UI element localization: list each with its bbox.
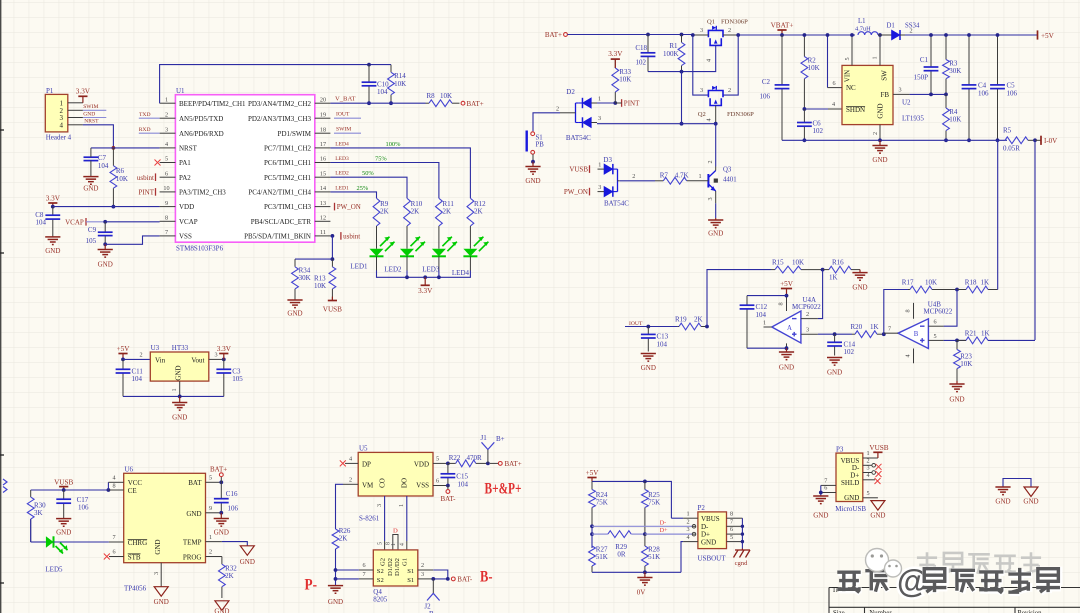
svg-text:DP: DP [362, 460, 371, 468]
svg-text:P3: P3 [836, 445, 844, 453]
svg-text:5: 5 [844, 57, 851, 60]
resistor R1 [681, 35, 683, 43]
resistor R14 [390, 65, 392, 73]
capacitor C1 [930, 35, 932, 67]
svg-text:LED4: LED4 [452, 269, 470, 277]
svg-text:20: 20 [320, 96, 326, 103]
led LED3 [438, 226, 440, 249]
capacitor C4 [968, 35, 970, 85]
svg-text:R19: R19 [675, 316, 687, 324]
svg-text:8: 8 [112, 483, 115, 490]
svg-text:D1/D2: D1/D2 [394, 558, 401, 576]
svg-text:104: 104 [36, 219, 47, 227]
wire bottom gnd bus [592, 571, 681, 573]
resistor R2 [803, 35, 805, 57]
node C4 rail junction [967, 33, 971, 37]
svg-text:PD3/AN4/TIM2_CH2: PD3/AN4/TIM2_CH2 [248, 100, 312, 108]
svg-text:2: 2 [556, 105, 559, 112]
capacitor C15 [447, 463, 449, 473]
svg-text:SHDN: SHDN [846, 106, 865, 114]
svg-text:LED2: LED2 [384, 265, 402, 273]
node BAT- junction2 [446, 577, 450, 581]
node C18 rail junction [646, 33, 650, 37]
wire C12 top [747, 295, 787, 297]
svg-text:SW: SW [881, 70, 889, 81]
svg-text:G1: G1 [401, 558, 408, 566]
svg-text:GND: GND [214, 608, 229, 613]
node C15 junction [446, 462, 450, 466]
svg-text:3.3V: 3.3V [217, 345, 232, 353]
wire feedback up [707, 270, 771, 327]
node C9 bottom junction [103, 242, 107, 246]
led LED2 [406, 226, 408, 249]
node C5 rail junction [996, 33, 1000, 37]
svg-text:VCAP: VCAP [65, 218, 84, 226]
svg-text:+5V: +5V [1041, 32, 1055, 40]
svg-text:GND: GND [56, 529, 71, 537]
svg-text:R18: R18 [965, 279, 977, 287]
svg-text:1K: 1K [981, 330, 990, 338]
svg-text:LED1: LED1 [350, 262, 368, 270]
net label PINT pin10 [155, 188, 157, 196]
svg-text:5: 5 [933, 333, 936, 340]
resistor R27 [589, 546, 596, 566]
svg-text:2: 2 [707, 160, 714, 163]
svg-text:R7: R7 [660, 172, 669, 180]
svg-text:6: 6 [824, 485, 827, 492]
svg-text:R22: R22 [449, 454, 461, 462]
wire TEMP pin1 [206, 541, 222, 543]
wire Q3 emitter [715, 203, 717, 218]
svg-text:P-: P- [305, 577, 318, 594]
wire to R34 [295, 258, 332, 260]
svg-text:17: 17 [320, 141, 326, 148]
svg-text:GND: GND [240, 558, 255, 566]
node R25 top junction [643, 480, 647, 484]
wire S1 link [533, 113, 560, 131]
node D- junction [590, 524, 594, 528]
node Q4 s2b junction [334, 577, 338, 581]
wire VUSB bus [31, 489, 109, 491]
resistor R6 [112, 148, 114, 166]
power I-0V [1035, 139, 1041, 141]
connector P2 USBOUT body [698, 512, 727, 549]
svg-text:5: 5 [730, 534, 733, 541]
svg-text:104: 104 [377, 88, 388, 96]
net label PINT [621, 99, 623, 107]
svg-text:PC4/AN2/TIM1_CH4: PC4/AN2/TIM1_CH4 [248, 189, 311, 197]
svg-text:usbint: usbint [343, 233, 360, 241]
ground GND C17 [56, 518, 71, 520]
svg-text:USBOUT: USBOUT [698, 554, 727, 562]
svg-text:R20: R20 [851, 323, 863, 331]
resistor R17 [908, 289, 910, 291]
svg-text:4: 4 [905, 354, 912, 357]
svg-text:BAT+: BAT+ [545, 31, 562, 39]
node R19 junction [705, 325, 709, 329]
svg-text:PC5/TIM2_CH1: PC5/TIM2_CH1 [264, 174, 312, 182]
transistor Q4 8205 body [373, 550, 418, 586]
svg-text:B+: B+ [496, 435, 505, 443]
svg-text:104: 104 [458, 480, 469, 488]
svg-text:GND: GND [877, 103, 885, 118]
capacitor C3 [223, 359, 225, 369]
node VSS junction [446, 484, 450, 488]
svg-text:106: 106 [78, 504, 89, 512]
wire Q1 gate [648, 45, 716, 71]
svg-text:2K: 2K [474, 208, 483, 216]
svg-text:U5: U5 [359, 445, 368, 453]
svg-text:3.3V: 3.3V [46, 195, 61, 203]
terminal BAT+ top [461, 101, 465, 105]
svg-text:4: 4 [60, 121, 64, 129]
svg-text:+5V: +5V [586, 469, 600, 477]
resistor R9 [373, 198, 380, 226]
U1 right pin 14 stub [315, 191, 331, 193]
wire Q4 S2 pin7 [359, 578, 373, 580]
resistor R30 [30, 490, 32, 497]
svg-text:B-: B- [480, 569, 493, 586]
connector J1 [487, 450, 489, 464]
ground GND R16 [859, 270, 861, 273]
wire FB [893, 93, 910, 95]
node BAT- junction1 [431, 577, 435, 581]
node C6 bottom junction [803, 138, 807, 142]
U2 pin2 GND stub [879, 125, 881, 141]
svg-text:14: 14 [320, 185, 326, 192]
wire D2 to gates [597, 123, 716, 125]
node U4A gnd junction [785, 346, 789, 350]
svg-text:6: 6 [730, 526, 733, 533]
node R1 gate junction [680, 70, 684, 74]
svg-text:5: 5 [209, 475, 212, 482]
svg-text:GND: GND [154, 598, 169, 606]
svg-text:C9: C9 [88, 226, 97, 234]
op-amp U4B MCP6022 [898, 319, 928, 349]
svg-text:4: 4 [399, 543, 405, 546]
svg-text:PA2: PA2 [179, 174, 191, 182]
U1 right pin 18 stub [315, 132, 331, 134]
svg-text:R5: R5 [1003, 127, 1012, 135]
node C4 bottom junction [967, 138, 971, 142]
svg-text:51K: 51K [596, 553, 608, 561]
svg-text:PINT: PINT [138, 189, 154, 197]
svg-text:DO: DO [401, 478, 409, 488]
resistor R32 [221, 557, 223, 565]
svg-text:50%: 50% [362, 170, 374, 177]
svg-text:GND: GND [813, 511, 828, 519]
P3 pin2 nc [863, 464, 872, 466]
capacitor C18 [647, 35, 649, 53]
svg-text:4: 4 [866, 472, 869, 479]
svg-text:SHLD: SHLD [841, 479, 859, 487]
svg-text:2: 2 [872, 132, 879, 135]
node gate-D2 junction [680, 122, 684, 126]
svg-text:GND: GND [525, 177, 540, 185]
node R4 rail junction [944, 138, 948, 142]
power VUSB P3 [863, 457, 878, 459]
svg-text:R17: R17 [902, 279, 914, 287]
wire +5V top [592, 481, 671, 518]
ground cgnd [735, 549, 750, 551]
svg-text:GND: GND [827, 369, 842, 377]
wire LED2 pin15 [330, 177, 407, 198]
transistor Q1 FDN306P [708, 30, 723, 37]
svg-text:cgnd: cgnd [735, 560, 749, 567]
wire S1 to GND [532, 154, 534, 162]
wire R5 to R21 [1034, 140, 1036, 340]
node C5 bottom junction [996, 138, 1000, 142]
node R6-VDD junction [112, 205, 116, 209]
svg-text:8: 8 [778, 302, 785, 305]
svg-text:PA3/TIM2_CH3: PA3/TIM2_CH3 [179, 189, 226, 197]
P3 pin6 stub [821, 492, 836, 494]
resistor R23 [956, 340, 958, 349]
P2 pin1 stub [683, 517, 698, 519]
capacitor C10 [368, 65, 370, 83]
svg-text:10K: 10K [960, 360, 972, 368]
resistor R4 [945, 94, 947, 108]
U1 right pin 19 stub [315, 117, 331, 119]
svg-text:3: 3 [898, 87, 901, 94]
node VBAT+ junction [780, 33, 784, 37]
wire GND bottom rail [782, 139, 1007, 141]
resistor R22 [448, 462, 456, 464]
svg-text:R21: R21 [965, 330, 977, 338]
svg-text:Q2: Q2 [698, 111, 706, 118]
connector P1 header [45, 94, 68, 131]
node U3 gnd junction [178, 395, 182, 399]
node Q1 pin3 junction [691, 33, 695, 37]
terminal BAT- Q4 [451, 577, 455, 581]
wire R24 chain [591, 526, 593, 548]
wire GND pin9 [206, 512, 222, 514]
resistor R25 [644, 481, 646, 489]
watermark text [917, 552, 937, 574]
ground GND U4A [786, 348, 788, 352]
node R3 rail junction [944, 33, 948, 37]
svg-text:GND: GND [98, 261, 113, 269]
svg-text:1: 1 [209, 534, 212, 541]
svg-text:106: 106 [1007, 89, 1018, 97]
svg-text:10K: 10K [314, 282, 326, 290]
U1 right pin 16 stub [315, 162, 331, 164]
svg-text:105: 105 [86, 237, 97, 245]
resistor R26 [332, 529, 339, 549]
node U3 out junction [222, 358, 226, 362]
svg-text:HT33: HT33 [172, 344, 189, 352]
svg-text:104: 104 [98, 162, 109, 170]
svg-text:102: 102 [636, 59, 647, 67]
diode D1 SS34 [878, 34, 892, 36]
terminal BAT+ U6 [220, 477, 222, 483]
connector J2 [432, 579, 434, 593]
net label VCAP [85, 218, 87, 226]
op chip U5 S-8261 body [358, 452, 433, 496]
svg-text:30K: 30K [299, 274, 311, 282]
wire P2 shield bus [741, 518, 743, 548]
svg-text:VBAT+: VBAT+ [771, 21, 794, 29]
svg-text:C2: C2 [762, 78, 771, 86]
svg-text:3: 3 [700, 27, 703, 34]
svg-text:GND: GND [83, 185, 98, 193]
svg-text:75K: 75K [596, 499, 608, 507]
wire to R17 [884, 290, 908, 335]
U1 right pin 13 stub [315, 206, 331, 208]
ground GND C13 [641, 353, 656, 355]
node R2 SHDN junction [803, 107, 807, 111]
wire Q3 collector [715, 124, 717, 167]
svg-text:LED4: LED4 [335, 141, 349, 147]
svg-text:8205: 8205 [373, 596, 388, 604]
svg-text:G2: G2 [380, 558, 387, 566]
terminal BAT- U5 [447, 486, 449, 490]
ground GND P- [328, 585, 343, 587]
wire spare gnd link [1003, 479, 1031, 488]
wire BAT pin5 [206, 481, 222, 483]
svg-text:3: 3 [598, 184, 601, 191]
svg-text:S1: S1 [407, 577, 414, 584]
node U2 gnd junction [878, 138, 882, 142]
node VCC branch junction [107, 488, 111, 492]
node VUSB junction [62, 488, 66, 492]
svg-text:CO: CO [379, 478, 387, 488]
svg-text:75%: 75% [375, 155, 387, 162]
svg-text:J1: J1 [481, 434, 488, 442]
svg-text:10K: 10K [792, 259, 804, 267]
svg-text:6: 6 [436, 478, 439, 485]
ground GND P3 left [813, 495, 828, 497]
svg-text:100K: 100K [663, 50, 679, 58]
svg-text:VDD: VDD [179, 203, 194, 211]
wire P3 gnd link [820, 485, 822, 496]
svg-text:3: 3 [376, 504, 383, 507]
op-amp U4A MCP6022 [772, 311, 801, 343]
ground GND R34 [287, 299, 302, 301]
capacitor C8 [52, 207, 54, 216]
P3 pin7 stub [821, 484, 836, 486]
wire to Vin [123, 358, 150, 360]
svg-text:U1: U1 [176, 87, 185, 95]
U1 left pin 2 stub [160, 117, 176, 119]
node P2 pin5 junction [741, 540, 744, 543]
svg-text:7: 7 [824, 478, 827, 485]
capacitor C13 [647, 327, 649, 335]
svg-text:D: D [393, 527, 398, 534]
capacitor C16 [220, 482, 222, 498]
node U4B in junction [882, 332, 886, 336]
wire LED4 pin17 [330, 148, 470, 198]
node NC rail junction [826, 33, 830, 37]
svg-text:105: 105 [232, 375, 243, 383]
resistor R3 [945, 35, 947, 60]
ground GND R23 [956, 381, 958, 384]
svg-text:3: 3 [866, 465, 869, 472]
svg-text:4401: 4401 [723, 177, 737, 184]
resistor R34 [294, 259, 296, 267]
svg-text:VCAP: VCAP [179, 218, 198, 226]
power 3.3V VDD rail [48, 202, 57, 204]
watermark wechat icon [866, 549, 889, 572]
svg-text:1: 1 [171, 388, 178, 391]
svg-text:GND: GND [154, 539, 162, 554]
net label PW_ON pin13 [334, 203, 336, 211]
svg-text:3: 3 [165, 126, 168, 133]
node S1 gnd junction [531, 160, 535, 164]
svg-text:3: 3 [421, 571, 424, 578]
wire NRST from P1 pin4 [68, 124, 83, 126]
node 3.3V junction [51, 205, 55, 209]
power +5V P2 [587, 477, 596, 479]
node PINT junction [613, 101, 617, 105]
U1 left pin 10 stub [160, 191, 176, 193]
wire pin3 net [818, 333, 852, 335]
wire R18 up to 0V rail [997, 140, 999, 289]
node usbint-R34 junction [331, 257, 335, 261]
svg-text:4.7K: 4.7K [675, 172, 689, 180]
wire IOUT to R19 [648, 326, 677, 328]
svg-text:7: 7 [888, 326, 891, 333]
inductor L1 [858, 32, 878, 35]
svg-text:PB5/SDA/TIM1_BKIN: PB5/SDA/TIM1_BKIN [244, 233, 311, 241]
wire LED3 pin16 [330, 163, 439, 199]
svg-text:Q3: Q3 [723, 167, 732, 174]
svg-text:5: 5 [165, 156, 168, 163]
node U4A vcc junction [785, 294, 789, 298]
svg-text:MCP6022: MCP6022 [792, 303, 821, 311]
svg-text:VM: VM [362, 481, 374, 489]
node R5 right junction [1033, 138, 1037, 142]
wire Q1 source to Q2 [723, 35, 738, 95]
svg-text:7: 7 [362, 571, 365, 578]
node C1 rail junction [929, 33, 933, 37]
node LED2 junction [405, 275, 409, 279]
svg-text:2: 2 [866, 458, 869, 465]
svg-text:L1: L1 [858, 18, 866, 25]
svg-text:GND: GND [214, 529, 229, 537]
svg-text:GND: GND [641, 364, 656, 372]
svg-text:13: 13 [320, 200, 326, 207]
svg-text:CHRG: CHRG [128, 539, 147, 547]
capacitor C11 [122, 359, 124, 369]
node top wire junction C10 [367, 63, 371, 67]
U1 right pin 15 stub [315, 176, 331, 178]
svg-text:GND: GND [328, 598, 343, 606]
node U6 gnd junction [219, 511, 223, 515]
node Q2 gate junction [714, 122, 718, 126]
svg-text:PD1/SWIM: PD1/SWIM [278, 130, 312, 138]
ground GND C14 [827, 357, 842, 359]
svg-text:AN6/PD6/RXD: AN6/PD6/RXD [179, 130, 224, 138]
svg-text:S1: S1 [536, 134, 543, 141]
svg-text:GND: GND [45, 247, 60, 255]
power +5V U3 [118, 353, 127, 355]
power VUSB R13 [328, 300, 337, 302]
node LED3 junction [437, 275, 441, 279]
wire NC link [827, 35, 829, 88]
svg-text:Vout: Vout [191, 356, 204, 364]
svg-text:NC: NC [846, 84, 856, 92]
svg-text:2K: 2K [339, 535, 348, 543]
svg-text:1: 1 [165, 96, 168, 103]
svg-text:2: 2 [728, 27, 731, 34]
svg-text:6: 6 [832, 80, 835, 87]
ground GND U6 pin3 [154, 587, 168, 597]
svg-text:PC6/TIM1_CH1: PC6/TIM1_CH1 [264, 159, 312, 167]
node R23 junction [955, 339, 959, 343]
U1 right pin 12 stub [315, 220, 331, 222]
wire rail to VBAT+ [738, 34, 855, 36]
